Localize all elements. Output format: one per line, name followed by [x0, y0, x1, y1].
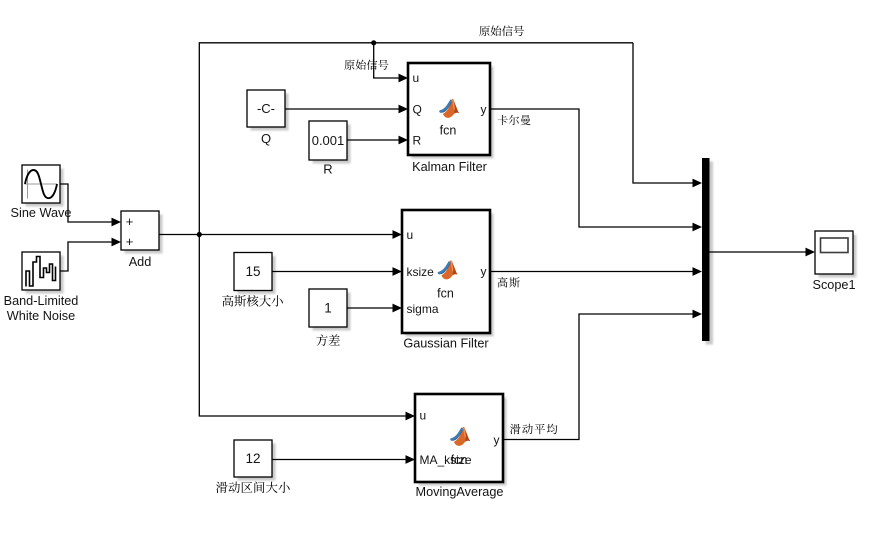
svg-text:Add: Add	[129, 255, 152, 269]
svg-text:fcn: fcn	[437, 287, 454, 301]
svg-text:R: R	[323, 162, 332, 177]
svg-text:12: 12	[245, 451, 260, 466]
block Gaussian Filter MATLAB function	[406, 214, 494, 337]
mux vertical bar	[706, 162, 714, 345]
wire R to Kalman R	[347, 139, 399, 141]
wire constant 15 to Gaussian ksize	[272, 271, 393, 273]
wire constant 12 to MovingAverage MA_ksize	[272, 459, 406, 461]
svg-text:y: y	[481, 265, 487, 279]
wire Gaussian y to mux input 3	[490, 271, 693, 273]
svg-text:y: y	[481, 103, 487, 117]
wire branch up to top rail	[199, 43, 633, 235]
label sliding window size	[216, 482, 290, 494]
svg-text:Sine Wave: Sine Wave	[11, 206, 72, 220]
svg-text:ksize: ksize	[407, 265, 435, 279]
svg-text:u: u	[413, 71, 420, 85]
svg-text:R: R	[413, 134, 422, 148]
MATLAB logo Gaussian	[438, 260, 458, 279]
svg-text:White Noise: White Noise	[7, 309, 75, 323]
wire Sine Wave to Add input 1	[60, 184, 112, 222]
net label Gaussian output	[498, 277, 520, 287]
svg-text:+: +	[126, 234, 134, 249]
block constant 15 kernel size	[238, 256, 276, 294]
wire constant 1 to Gaussian sigma	[347, 307, 393, 309]
block Sine Wave source	[26, 169, 64, 207]
net label original signal top rail	[479, 25, 524, 36]
wire branch down to MovingAverage u	[199, 235, 405, 417]
block constant 12 window size	[238, 444, 276, 481]
block Kalman Filter MATLAB function	[412, 67, 494, 159]
svg-text:MovingAverage: MovingAverage	[416, 485, 504, 499]
svg-text:Scope1: Scope1	[812, 278, 855, 292]
block Add sum	[125, 215, 163, 254]
block Q constant -C-	[251, 94, 289, 131]
node junction at Add output branch	[197, 232, 202, 237]
svg-text:Kalman Filter: Kalman Filter	[412, 160, 488, 174]
svg-text:fcn: fcn	[440, 124, 457, 138]
net label original signal at Kalman u	[344, 59, 388, 69]
wire Q to Kalman Q	[285, 108, 399, 110]
svg-text:Q: Q	[413, 103, 422, 117]
net label Kalman output	[497, 115, 530, 125]
label gaussian kernel size	[222, 295, 283, 307]
svg-text:15: 15	[245, 264, 260, 279]
wire Add output to Gaussian u	[159, 234, 393, 236]
node junction on top rail	[371, 40, 376, 45]
MATLAB logo MovingAverage	[450, 427, 470, 446]
svg-text:u: u	[407, 228, 414, 242]
block constant 1 sigma	[313, 293, 351, 331]
wire top rail branch down to Kalman u	[374, 43, 399, 78]
svg-text:1: 1	[324, 301, 332, 316]
svg-text:Gaussian Filter: Gaussian Filter	[403, 337, 489, 351]
svg-text:0.001: 0.001	[312, 133, 345, 148]
label variance	[316, 334, 339, 346]
block Scope1	[819, 235, 857, 278]
wire Band-Limited White Noise to Add input 2	[60, 242, 112, 271]
svg-text:sigma: sigma	[407, 302, 439, 316]
net label moving average output	[510, 424, 558, 435]
wire mux output to Scope1	[710, 251, 806, 253]
svg-text:y: y	[494, 433, 500, 447]
svg-text:fcn: fcn	[451, 453, 468, 467]
svg-text:+: +	[126, 214, 134, 229]
block MovingAverage MATLAB function	[419, 398, 507, 486]
svg-text:u: u	[420, 409, 427, 423]
wire Kalman y to mux input 2	[490, 109, 693, 227]
svg-text:Q: Q	[261, 131, 271, 146]
MATLAB logo Kalman	[439, 99, 459, 118]
block Band-Limited White Noise source	[26, 256, 64, 294]
wire MovingAverage y to mux input 4	[503, 314, 693, 440]
wire top rail down to mux input 1	[633, 43, 693, 183]
svg-text:-C-: -C-	[257, 101, 275, 116]
svg-text:Band-Limited: Band-Limited	[4, 294, 79, 308]
block R constant 0.001	[313, 125, 351, 164]
